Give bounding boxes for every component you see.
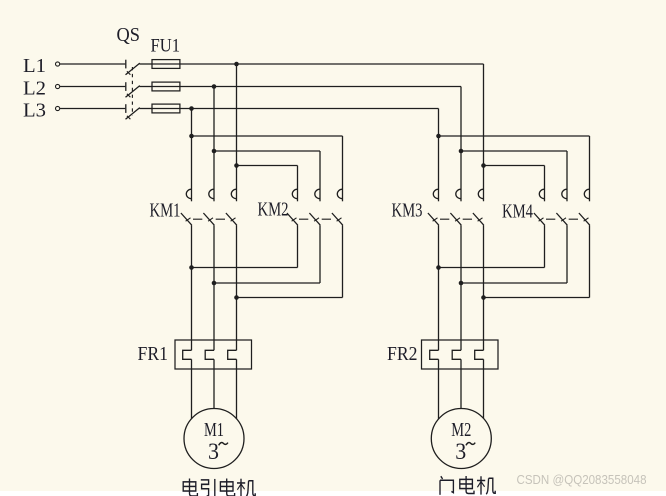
contactor KM3 pole 2 upper contact wire [460, 87, 462, 202]
node KM3 feed tap row 2 [459, 149, 464, 154]
contactor KM1 pole 2 upper contact wire [213, 87, 215, 202]
node KM4/KM3 pole 1 output junction [436, 265, 441, 270]
wire KM4 pole 1 output drop [544, 225, 546, 267]
motor M1 circle [184, 409, 244, 469]
wire KM4 pole 1 output jumper [439, 267, 545, 269]
contactor KM3 pole 2 moving blade [450, 213, 461, 225]
contactor KM3 pole 3 moving blade [473, 213, 484, 225]
caption 电引电机 (traction motor) [183, 478, 255, 496]
svg-text:L2: L2 [23, 78, 46, 100]
svg-text:L1: L1 [23, 55, 46, 77]
wire QS to fuse [140, 108, 153, 110]
wire KM4 pole 3 output drop [589, 225, 591, 297]
wire rail L1 [180, 63, 484, 65]
svg-text:CSDN @QQ2083558048: CSDN @QQ2083558048 [517, 472, 647, 487]
contactor KM3 pole 3 fixed contact arc [478, 189, 483, 199]
wire jumper to KM2 pole 3 [192, 135, 343, 137]
wire KM2 pole 3 output jumper [237, 297, 343, 299]
thermal relay FR2 box [422, 340, 499, 369]
contactor KM4 pole 2 moving blade [556, 213, 567, 225]
svg-text:FR1: FR1 [138, 344, 169, 365]
QS blade [126, 86, 140, 98]
wire KM3 pole 3 output to FR2 [483, 225, 485, 350]
contactor KM4 pole 3 upper contact wire [589, 136, 591, 201]
node KM3 feed tap row 3 [436, 134, 441, 139]
contactor KM2 pole 3 upper contact wire [342, 136, 344, 201]
QS linkage dashed line [131, 67, 133, 116]
FR2 pole 1 heater element [430, 350, 439, 359]
wire FR1 pole 3 to motor M1 [236, 359, 238, 418]
wire rail L3 [180, 108, 439, 110]
contactor KM3 pole 3 upper contact wire [483, 64, 485, 201]
contactor KM4 pole 3 moving blade [579, 213, 590, 225]
svg-text:3: 3 [455, 439, 466, 464]
wire FR1 pole 2 to motor M1 [213, 359, 215, 408]
wire KM2 pole 1 output drop [297, 225, 299, 267]
FR2 pole 2 heater element [452, 350, 461, 359]
wire QS to fuse [140, 86, 153, 88]
wire L-rail to QS fixed contact [60, 63, 126, 65]
node KM4/KM3 pole 3 output junction [481, 295, 486, 300]
wire KM4 pole 3 output jumper [484, 297, 590, 299]
FR1 pole 1 heater element [183, 350, 192, 359]
contactor KM1 pole 3 moving blade [226, 213, 237, 225]
svg-text:KM3: KM3 [392, 201, 423, 222]
wire KM2 pole 1 output jumper [192, 267, 298, 269]
QS blade [126, 108, 140, 120]
KM3 linkage dashed line [440, 218, 479, 220]
svg-text:FR2: FR2 [387, 344, 418, 365]
wire KM1 pole 1 output to FR1 [191, 225, 193, 350]
KM2 linkage dashed line [299, 218, 338, 220]
contactor KM1 pole 2 moving blade [203, 213, 214, 225]
wire jumper to KM2 pole 2 [214, 150, 320, 152]
contactor KM4 pole 1 upper contact wire [544, 166, 546, 202]
wire KM4 pole 2 output jumper [461, 282, 567, 284]
wire KM3 pole 1 output to FR2 [438, 225, 440, 350]
KM1 linkage dashed line [193, 218, 232, 220]
node rail L1 tap [234, 62, 239, 67]
wire jumper to KM4 pole 2 [461, 150, 567, 152]
wire through fuse FU1 [152, 63, 180, 65]
contactor KM3 pole 2 fixed contact arc [456, 189, 461, 199]
svg-text:M1: M1 [204, 419, 224, 441]
wire KM1 pole 3 output to FR1 [236, 225, 238, 350]
node KM2/KM1 pole 3 output junction [234, 295, 239, 300]
fuse FU1 body [152, 82, 180, 91]
svg-text:FU1: FU1 [151, 37, 181, 57]
contactor KM2 pole 3 fixed contact arc [337, 189, 342, 199]
wire FR1 pole 1 to motor M1 [191, 359, 193, 418]
contactor KM3 pole 1 moving blade [428, 213, 439, 225]
contactor KM1 pole 1 moving blade [181, 213, 192, 225]
node KM2/KM1 pole 2 output junction [212, 281, 217, 286]
wire KM2 pole 3 output drop [342, 225, 344, 297]
wire through fuse FU1 [152, 86, 180, 88]
terminal L1 [56, 62, 60, 66]
node rail L2 tap [212, 84, 217, 89]
wire KM1 pole 2 output to FR1 [213, 225, 215, 350]
node rail L3 tap [189, 106, 194, 111]
contactor KM2 pole 1 fixed contact arc [292, 189, 297, 199]
node KM1 feed tap row 3 [189, 134, 194, 139]
contactor KM4 pole 1 fixed contact arc [539, 189, 544, 199]
QS fixed contact tick [125, 82, 127, 91]
wire KM2 pole 2 output jumper [214, 282, 320, 284]
wire jumper to KM4 pole 3 [439, 135, 590, 137]
wire FR2 pole 1 to motor M2 [438, 359, 440, 419]
caption 门电机 (door motor) [440, 476, 495, 495]
KM4 linkage dashed line [546, 218, 585, 220]
contactor KM3 pole 1 upper contact wire [438, 109, 440, 202]
contactor KM4 pole 2 fixed contact arc [562, 189, 567, 199]
contactor KM4 pole 1 moving blade [534, 213, 545, 225]
svg-text:M2: M2 [451, 419, 471, 441]
contactor KM3 pole 1 fixed contact arc [433, 189, 438, 199]
contactor KM2 pole 3 moving blade [332, 213, 343, 225]
contactor KM2 pole 2 upper contact wire [319, 151, 321, 201]
contactor KM1 pole 3 upper contact wire [236, 64, 238, 201]
node KM4/KM3 pole 2 output junction [459, 281, 464, 286]
contactor KM2 pole 2 fixed contact arc [315, 189, 320, 199]
svg-text:KM4: KM4 [502, 202, 533, 223]
wire KM3 pole 2 output to FR2 [460, 225, 462, 350]
thermal relay FR1 box [175, 340, 252, 369]
contactor KM1 pole 2 fixed contact arc [209, 189, 214, 199]
svg-text:QS: QS [117, 25, 141, 46]
wire through fuse FU1 [152, 108, 180, 110]
wire KM2 pole 2 output drop [319, 225, 321, 283]
FR2 pole 3 heater element [475, 350, 484, 359]
wire jumper to KM4 pole 1 [484, 165, 545, 167]
contactor KM1 pole 1 fixed contact arc [186, 189, 191, 199]
svg-text:KM2: KM2 [258, 200, 289, 221]
FR1 pole 3 heater element [228, 350, 237, 359]
wire L-rail to QS fixed contact [60, 108, 126, 110]
QS fixed contact tick [125, 104, 127, 113]
node KM2/KM1 pole 1 output junction [189, 265, 194, 270]
motor M2 circle [431, 409, 491, 469]
svg-text:L3: L3 [23, 100, 46, 122]
fuse FU1 body [152, 60, 180, 69]
contactor KM2 pole 1 moving blade [287, 213, 298, 225]
node KM1 feed tap row 1 [234, 163, 239, 168]
contactor KM4 pole 3 fixed contact arc [584, 189, 589, 199]
QS fixed contact tick [125, 60, 127, 69]
QS blade [126, 63, 140, 75]
svg-text:KM1: KM1 [150, 201, 181, 222]
contactor KM4 pole 2 upper contact wire [566, 151, 568, 201]
node KM1 feed tap row 2 [212, 149, 217, 154]
contactor KM1 pole 3 fixed contact arc [231, 189, 236, 199]
wire L-rail to QS fixed contact [60, 86, 126, 88]
contactor KM2 pole 1 upper contact wire [297, 166, 299, 202]
FR1 pole 2 heater element [205, 350, 214, 359]
node KM3 feed tap row 1 [481, 163, 486, 168]
wire FR2 pole 3 to motor M2 [483, 359, 485, 418]
wire FR2 pole 2 to motor M2 [460, 359, 462, 408]
terminal L2 [56, 84, 60, 88]
contactor KM2 pole 2 moving blade [309, 213, 320, 225]
terminal L3 [56, 106, 60, 110]
wire KM4 pole 2 output drop [566, 225, 568, 283]
wire jumper to KM2 pole 1 [237, 165, 298, 167]
fuse FU1 body [152, 104, 180, 113]
wire QS to fuse [140, 63, 153, 65]
svg-text:3: 3 [208, 439, 219, 464]
contactor KM1 pole 1 upper contact wire [191, 109, 193, 202]
wire rail L2 [180, 86, 461, 88]
